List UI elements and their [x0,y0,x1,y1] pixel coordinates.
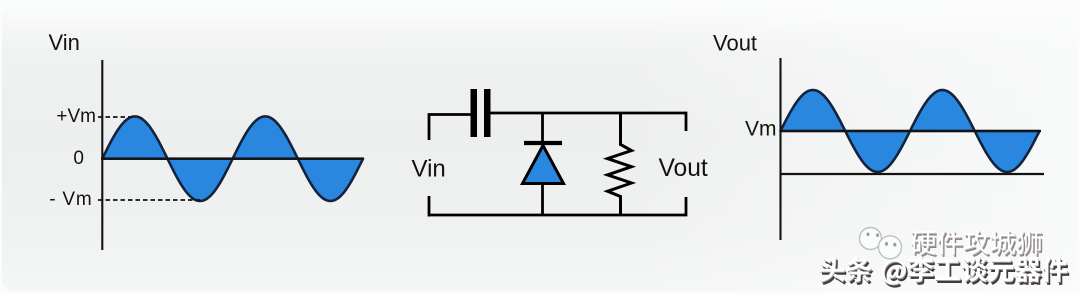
svg-text:Vin: Vin [49,30,80,55]
svg-text:Vin: Vin [412,156,446,183]
svg-text:Vout: Vout [713,31,757,56]
svg-text:Vout: Vout [659,155,708,182]
svg-text:- Vm: - Vm [49,189,92,210]
svg-text:Vm: Vm [745,118,777,141]
svg-text:+Vm: +Vm [56,106,96,127]
svg-text:0: 0 [73,148,84,169]
